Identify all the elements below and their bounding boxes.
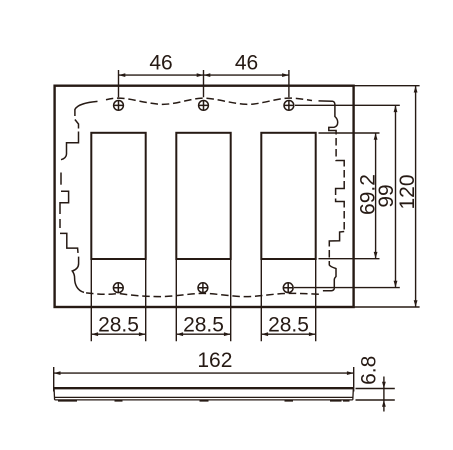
- svg-text:46: 46: [235, 52, 258, 75]
- svg-text:120: 120: [396, 174, 419, 209]
- svg-text:46: 46: [149, 52, 172, 75]
- svg-text:28.5: 28.5: [183, 313, 224, 336]
- svg-text:28.5: 28.5: [98, 313, 139, 336]
- svg-text:99: 99: [375, 184, 398, 207]
- svg-text:6.8: 6.8: [357, 356, 380, 385]
- svg-text:162: 162: [197, 349, 232, 372]
- svg-text:28.5: 28.5: [268, 313, 309, 336]
